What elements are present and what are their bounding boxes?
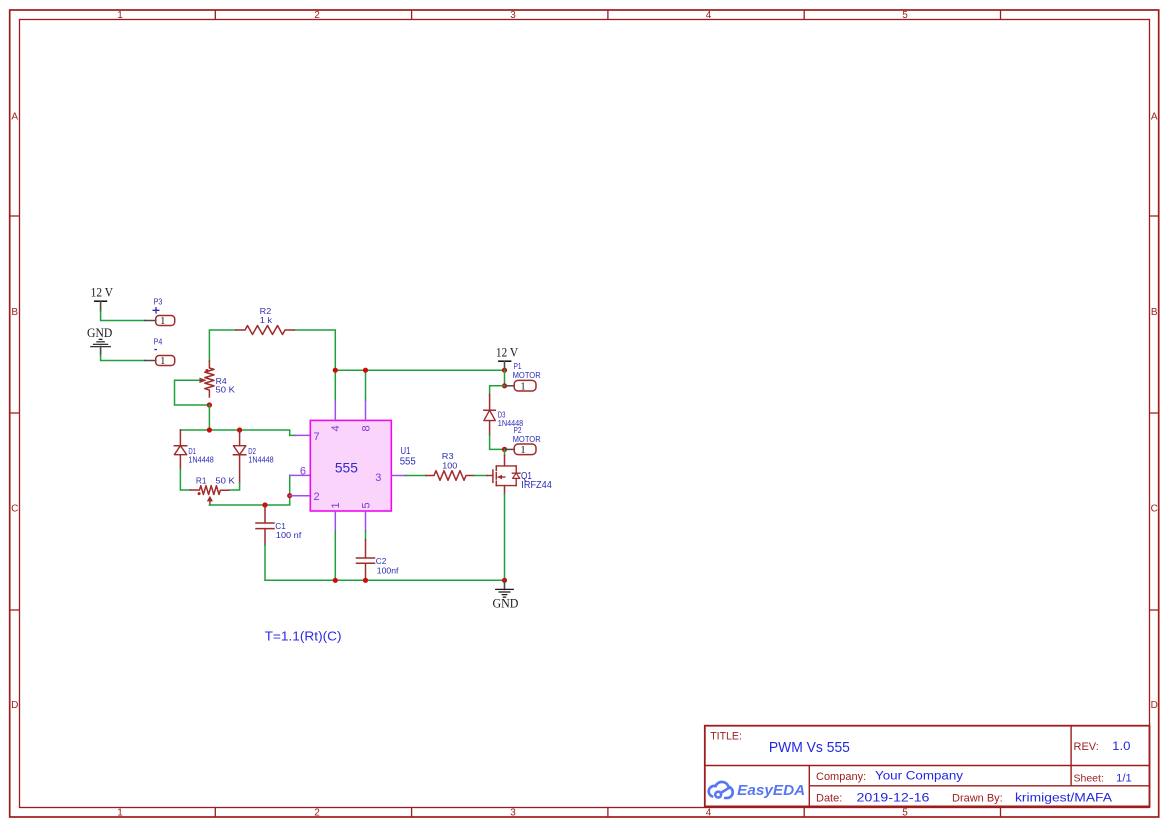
junction rail 12V <box>502 368 507 373</box>
wire C1 bottom rail <box>265 545 505 580</box>
svg-text:Sheet:: Sheet: <box>1074 773 1104 785</box>
EasyEDA logo <box>709 782 806 799</box>
resistor R3 <box>426 451 474 480</box>
svg-text:1N4448: 1N4448 <box>188 455 214 465</box>
svg-text:5: 5 <box>902 808 908 819</box>
wire pin3 to R3 <box>406 475 427 477</box>
junction rail D2 <box>237 427 242 432</box>
svg-text:100: 100 <box>442 461 457 471</box>
svg-text:4: 4 <box>706 10 712 21</box>
CIRCUIT <box>87 285 552 643</box>
transistor Q1 IRFZ44 <box>487 449 552 494</box>
svg-text:A: A <box>11 112 18 123</box>
svg-text:krimigest/MAFA: krimigest/MAFA <box>1015 793 1112 805</box>
svg-text:IRFZ44: IRFZ44 <box>521 480 552 491</box>
svg-text:B: B <box>11 307 18 318</box>
resistor R2 <box>236 306 294 335</box>
potentiometer R1 <box>190 476 235 505</box>
wire GND to P4 <box>101 355 145 361</box>
wire R3 to gate <box>474 475 487 477</box>
svg-text:3: 3 <box>510 808 516 819</box>
wire top rail D1 D2 to pin7 <box>180 430 295 435</box>
wire R4 bottom to rail <box>208 405 210 430</box>
svg-text:2: 2 <box>314 10 320 21</box>
svg-text:50 K: 50 K <box>215 476 235 486</box>
junction P2 <box>502 447 507 452</box>
pin stub 3 <box>391 475 405 477</box>
svg-text:12 V: 12 V <box>91 285 113 299</box>
svg-text:D: D <box>11 700 18 711</box>
svg-text:5: 5 <box>902 10 908 21</box>
svg-text:Drawn By:: Drawn By: <box>952 793 1003 805</box>
pin stub 7 <box>295 434 310 436</box>
svg-text:P3: P3 <box>154 296 163 306</box>
svg-text:A: A <box>1151 112 1158 123</box>
svg-text:PWM Vs 555: PWM Vs 555 <box>769 740 850 756</box>
svg-text:REV:: REV: <box>1074 741 1099 753</box>
drain pin <box>504 449 506 455</box>
svg-text:P4: P4 <box>154 336 163 346</box>
svg-text:12 V: 12 V <box>496 345 518 359</box>
junction rail R4 <box>207 427 212 432</box>
svg-text:100nf: 100nf <box>377 565 399 575</box>
svg-text:GND: GND <box>87 326 112 340</box>
diode D2 <box>233 430 274 483</box>
svg-text:6: 6 <box>300 466 306 478</box>
svg-text:B: B <box>1151 307 1158 318</box>
wire D1 bottom <box>180 469 190 490</box>
junction gnd <box>502 578 507 583</box>
svg-text:3: 3 <box>510 10 516 21</box>
junction pin1 rail <box>333 578 338 583</box>
diode D1 <box>174 430 214 469</box>
svg-text:4: 4 <box>706 808 712 819</box>
junction pin2 <box>287 493 292 498</box>
svg-text:1: 1 <box>330 502 342 508</box>
svg-text:50 K: 50 K <box>216 385 236 395</box>
pin stub 6 <box>290 474 311 476</box>
svg-text:1: 1 <box>520 380 526 392</box>
svg-text:C: C <box>1151 504 1158 515</box>
wire D3 to P2 <box>490 435 505 449</box>
svg-text:8: 8 <box>360 425 372 431</box>
pin stub 1 <box>334 511 336 531</box>
svg-text:5: 5 <box>360 502 372 508</box>
svg-text:2: 2 <box>314 808 320 819</box>
wire R1 wiper to pins 2 6 <box>209 475 289 505</box>
ground flag GND left <box>87 326 112 355</box>
power flag 12V right <box>496 345 518 370</box>
svg-text:100 nf: 100 nf <box>276 530 302 540</box>
diode D3 <box>484 395 524 435</box>
svg-text:2: 2 <box>314 491 320 503</box>
capacitor C1 <box>256 505 302 545</box>
svg-text:T=1.1(Rt)(C): T=1.1(Rt)(C) <box>265 630 342 644</box>
pin stub 8 <box>365 400 367 420</box>
svg-text:555: 555 <box>335 460 358 475</box>
svg-text:MOTOR: MOTOR <box>513 434 541 444</box>
junction rail pin8 <box>363 368 368 373</box>
ruler letters left <box>11 112 18 712</box>
potentiometer R4 <box>199 361 235 397</box>
wire D2 bottom <box>229 483 239 490</box>
svg-text:MOTOR: MOTOR <box>513 370 541 380</box>
ruler ticks top <box>215 10 1000 20</box>
ruler ticks left <box>10 216 20 610</box>
junction C1 tap <box>262 502 267 507</box>
wire 12V to P1 junction <box>504 370 506 386</box>
wire R2 left net <box>209 330 335 370</box>
ruler numbers bottom <box>117 808 908 819</box>
wire R4 wiper loop <box>175 380 210 405</box>
drain connector <box>496 465 516 467</box>
power flag 12V left <box>91 285 113 311</box>
gate pin <box>487 475 493 477</box>
channel bars <box>495 466 497 486</box>
svg-text:D: D <box>1151 700 1158 711</box>
pin stub 5 <box>365 511 367 531</box>
svg-text:1: 1 <box>117 10 123 21</box>
wire 12V to P3 <box>101 311 145 321</box>
connector P2 <box>513 425 541 456</box>
gate bar <box>492 470 494 482</box>
wire stub P1 dark <box>506 385 515 387</box>
svg-text:Your Company: Your Company <box>875 771 963 783</box>
title block outline <box>705 726 1150 807</box>
junction rail pin4 <box>333 368 338 373</box>
ruler numbers top <box>117 10 908 21</box>
svg-text:Date:: Date: <box>816 793 842 805</box>
svg-text:555: 555 <box>400 457 417 468</box>
wire pin4 pin8 supply <box>335 370 365 400</box>
ground flag GND right <box>492 580 518 610</box>
IC U1 555 body <box>310 420 416 511</box>
wire stub P2 dark <box>506 448 515 450</box>
source pin <box>504 486 506 494</box>
svg-text:TITLE:: TITLE: <box>710 731 742 743</box>
pin stub 2 <box>290 495 311 497</box>
svg-text:1: 1 <box>117 808 123 819</box>
svg-text:7: 7 <box>314 431 320 443</box>
svg-text:1N4448: 1N4448 <box>248 455 274 465</box>
svg-text:U1: U1 <box>401 446 411 457</box>
source connector <box>496 485 516 487</box>
svg-text:1 k: 1 k <box>260 315 273 325</box>
svg-text:3: 3 <box>375 472 381 484</box>
svg-text:GND: GND <box>492 597 518 611</box>
junction P1 <box>502 383 507 388</box>
pin stub 4 <box>334 400 336 420</box>
wire supply rail <box>335 369 504 371</box>
svg-text:4: 4 <box>330 425 342 431</box>
svg-text:1: 1 <box>520 444 526 456</box>
svg-text:EasyEDA: EasyEDA <box>737 783 805 799</box>
capacitor C2 <box>357 540 400 580</box>
connector P4 <box>154 336 175 367</box>
wire P1 to D3 <box>490 386 505 395</box>
wire pin1 down <box>334 531 336 580</box>
junction C2 rail <box>363 578 368 583</box>
svg-text:1/1: 1/1 <box>1116 773 1132 785</box>
connector P1 <box>513 361 541 392</box>
junction R4 bottom <box>207 402 212 407</box>
svg-text:C: C <box>11 504 18 515</box>
svg-text:1.0: 1.0 <box>1112 741 1130 753</box>
connector P3 <box>153 296 175 327</box>
wire stub P3 dark <box>145 320 156 322</box>
body diode <box>512 466 520 486</box>
ruler letters right <box>1151 112 1158 712</box>
ruler ticks bottom <box>215 808 1000 818</box>
ruler ticks right <box>1150 216 1159 610</box>
wire stub P4 dark <box>145 360 156 362</box>
svg-text:1: 1 <box>160 315 166 327</box>
bulk arrow <box>501 476 505 478</box>
TITLE BLOCK <box>705 726 1150 807</box>
svg-text:R1: R1 <box>196 476 207 486</box>
wire Q1 source to gnd rail <box>504 494 506 580</box>
svg-text:1: 1 <box>160 355 166 367</box>
svg-text:Company:: Company: <box>816 771 866 783</box>
svg-text:2019-12-16: 2019-12-16 <box>857 793 930 805</box>
wire pin5 to C2 <box>365 531 367 540</box>
